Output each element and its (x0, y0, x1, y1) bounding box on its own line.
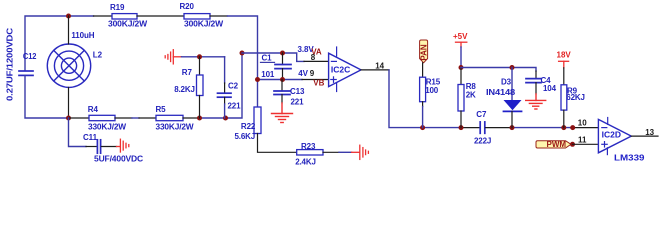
wire pin9 black (302, 79, 329, 81)
svg-text:2.4KJ: 2.4KJ (295, 157, 316, 166)
wire bus2 (4V) blue (258, 79, 303, 81)
wire IC2C output black (361, 69, 389, 71)
inductor L2 (47, 44, 90, 87)
node junction x242 top bus (240, 51, 245, 56)
node junction bus2 left (255, 77, 260, 82)
svg-text:PAN: PAN (419, 44, 428, 61)
wire C11 left lead black (86, 146, 97, 148)
svg-text:14: 14 (375, 61, 384, 70)
wire C11 right lead black (101, 146, 116, 148)
wire R7 top (blue) (182, 56, 225, 58)
wire bottom bus blue to x=242 and up (200, 53, 243, 118)
svg-text:VB: VB (313, 79, 324, 88)
svg-text:11: 11 (578, 136, 587, 145)
svg-text:222J: 222J (474, 136, 491, 145)
node junction R7 top (197, 54, 202, 59)
svg-text:0.27UF/1200VDC: 0.27UF/1200VDC (6, 28, 15, 101)
ground chassis (right-pointing) after R23 (352, 145, 369, 159)
node junction C1 top (280, 51, 285, 56)
wire C13 bottom lead black (281, 95, 283, 104)
wire underline below C1 label (261, 61, 275, 63)
wire pin11 black (573, 143, 599, 145)
svg-text:C2: C2 (228, 81, 239, 90)
wire after C7 black (486, 127, 513, 129)
wire after R20 black (210, 15, 228, 17)
resistor R23 (297, 150, 323, 155)
svg-text:4V: 4V (298, 69, 308, 78)
svg-text:5.6KJ: 5.6KJ (235, 132, 256, 141)
wire IC2D output black (631, 135, 658, 137)
node junction PWM tip (570, 142, 575, 147)
wire R8 bottom lead (460, 111, 462, 128)
resistor R9 (561, 85, 567, 110)
svg-text:2K: 2K (466, 90, 476, 99)
wire +5V vertical blue (460, 47, 462, 68)
wire R22 bottom to R23 blue (258, 134, 297, 153)
wire L2 bottom lead (68, 87, 70, 118)
svg-text:+5V: +5V (453, 32, 468, 41)
node junction C13 top (280, 77, 285, 82)
node junction R7 bottom (197, 116, 202, 121)
svg-text:13: 13 (645, 128, 654, 137)
capacitor C2 (218, 93, 232, 97)
wire top-left vertical and horizontal (blue) (25, 16, 94, 71)
svg-text:300KJ/2W: 300KJ/2W (108, 20, 148, 29)
wire pin8 black (304, 60, 329, 62)
svg-text:R7: R7 (182, 68, 193, 77)
svg-text:R22: R22 (241, 122, 256, 131)
resistor R8 (458, 85, 464, 112)
wire to R5 (139, 117, 156, 119)
svg-text:110uH: 110uH (71, 31, 94, 40)
svg-text:330KJ/2W: 330KJ/2W (88, 123, 127, 132)
svg-text:IN4148: IN4148 (486, 88, 516, 97)
svg-text:LM339: LM339 (614, 152, 645, 162)
wire L2 top lead (68, 16, 70, 44)
svg-text:IC2C: IC2C (331, 64, 350, 74)
capacitor C11 (97, 140, 100, 153)
wire C2 bottom lead black pin then blue (224, 97, 226, 104)
svg-text:101: 101 (261, 70, 275, 79)
svg-text:221: 221 (291, 97, 305, 106)
capacitor C13 (281, 80, 283, 92)
svg-text:8.2KJ: 8.2KJ (174, 85, 195, 94)
svg-text:IC2D: IC2D (602, 130, 621, 140)
svg-text:10: 10 (578, 118, 587, 127)
C11 branch wire blue (69, 118, 87, 147)
wire top black segment to R19 (94, 15, 113, 17)
svg-text:18V: 18V (557, 51, 572, 60)
svg-text:62KJ: 62KJ (566, 93, 585, 102)
svg-text:R5: R5 (156, 105, 167, 114)
node junction top-left (66, 14, 71, 19)
resistor R15 (420, 77, 426, 102)
svg-text:R23: R23 (301, 142, 316, 151)
wire R5 to R7 node (183, 117, 200, 119)
wire bottom bus black to R4 (69, 117, 90, 119)
ground chassis (left-pointing) at R7 top (165, 50, 181, 64)
capacitor C4 (535, 71, 537, 79)
op-amp IC2D (598, 119, 631, 152)
wire bus y128 black to C7 (460, 127, 480, 129)
node junction D3 bottom (510, 125, 515, 130)
node junction bottom-left (66, 116, 71, 121)
node junction C2 bottom (223, 116, 228, 121)
diode D3 (511, 68, 513, 101)
wire R9 top lead (563, 68, 565, 85)
svg-text:9: 9 (310, 69, 315, 78)
wire C1 top lead (282, 53, 284, 65)
svg-text:104: 104 (543, 84, 557, 93)
wire bus1 (3.8V) blue (242, 53, 304, 61)
wire output down and right (blue) (389, 70, 460, 128)
wire after R23 black (323, 151, 339, 153)
svg-text:C11: C11 (83, 133, 98, 142)
svg-text:C12: C12 (23, 52, 37, 61)
power flag PWM (536, 141, 571, 148)
wire +5V bus right blue (461, 68, 536, 72)
wire R15 bottom lead (422, 102, 424, 107)
svg-text:D3: D3 (501, 78, 512, 87)
svg-text:8: 8 (311, 53, 316, 62)
resistor R5 (156, 115, 183, 120)
node junction D3 top (510, 65, 515, 70)
capacitor C7 (480, 122, 485, 133)
wire after R20 blue going right and down at x=257.5 (228, 16, 258, 107)
svg-text:PWM: PWM (547, 140, 567, 149)
wire R7 top lead (199, 57, 201, 75)
capacitor C1 (275, 65, 291, 69)
resistor R20 (184, 14, 210, 19)
svg-text:300KJ/2W: 300KJ/2W (184, 20, 224, 29)
wire blue dash on bottom bus (132, 117, 139, 119)
svg-text:R20: R20 (180, 2, 195, 11)
op-amp IC2C (329, 53, 361, 86)
wire R9 bottom lead (563, 110, 565, 128)
wire R8 top lead (460, 68, 462, 85)
node junction R15 bottom (420, 125, 425, 130)
wire R7 bottom lead (199, 96, 201, 119)
node junction R8 top (459, 65, 464, 70)
svg-text:R19: R19 (110, 3, 125, 12)
wire C2 top lead blue then black pin (224, 57, 226, 83)
svg-text:221: 221 (228, 102, 242, 111)
svg-text:R4: R4 (88, 105, 99, 114)
resistor R7 (197, 75, 204, 96)
svg-text:330KJ/2W: 330KJ/2W (156, 123, 195, 132)
resistor R4 (89, 115, 115, 120)
resistor R22 (254, 107, 261, 134)
wire R4 to R5 (115, 117, 132, 119)
svg-text:R15: R15 (426, 77, 441, 86)
node junction pin10 (570, 125, 575, 130)
node junction R9 bottom (561, 125, 566, 130)
wire between R19 and R20 (137, 15, 184, 17)
svg-text:C1: C1 (262, 53, 273, 62)
node junction R8 bottom (459, 125, 464, 130)
wire pin10 black (573, 127, 599, 129)
ground chassis (right-pointing) after C11 (117, 139, 129, 152)
ground earth below C4 (535, 83, 537, 94)
capacitor C12 (19, 71, 33, 75)
svg-text:100: 100 (425, 86, 439, 95)
wire C1 bottom lead (282, 69, 284, 80)
resistor R19 (112, 14, 137, 19)
svg-text:5UF/400VDC: 5UF/400VDC (94, 155, 143, 164)
wire bus y128 blue to R9 (512, 127, 573, 129)
svg-text:C7: C7 (476, 110, 487, 119)
power flag PAN (420, 40, 428, 63)
svg-text:L2: L2 (93, 50, 103, 59)
wire PAN stem (422, 63, 424, 77)
ground earth below C13 (272, 103, 293, 123)
svg-text:C13: C13 (290, 87, 305, 96)
wire C12 lower vertical (blue) (25, 75, 69, 118)
